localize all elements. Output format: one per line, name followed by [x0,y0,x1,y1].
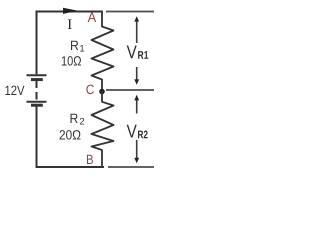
wire left lower (battery negative lead) [36,107,38,169]
label R1 value 10 ohm [62,56,81,66]
reference line middle at node C level [106,89,154,91]
junction dot at node C [99,89,105,95]
label R2 value 20 ohm [60,130,81,140]
resistor R1 [92,11,114,92]
label VR2 subscript R2 [138,131,148,139]
label 12V battery value [5,86,24,95]
wire left upper (battery positive lead) [36,11,38,75]
node C [86,85,94,95]
battery V1 12V [27,75,47,105]
voltage arrow VR1 up head [134,16,139,43]
node B [87,155,93,164]
reference line top at node A level [106,11,154,13]
voltage arrow VR1 down head [134,67,139,85]
label VR1 letter V [127,45,137,58]
current arrow I on top wire [63,8,78,14]
label R1 subscript 1 [80,45,84,52]
wire top rail from battery + to node A [36,11,103,13]
label VR2 letter V [127,125,137,138]
node A [88,12,97,22]
reference line bottom at node B level [108,166,154,168]
label VR1 subscript R1 [138,51,148,59]
label I current [68,20,72,29]
voltage arrow VR2 down head [134,140,139,163]
voltage arrow VR2 up head [134,95,139,114]
label R2 designator [70,114,77,123]
label R1 designator [71,41,78,50]
resistor R2 [92,92,114,168]
wire bottom rail from battery - to node B [36,166,105,168]
label R2 subscript 2 [80,118,84,125]
